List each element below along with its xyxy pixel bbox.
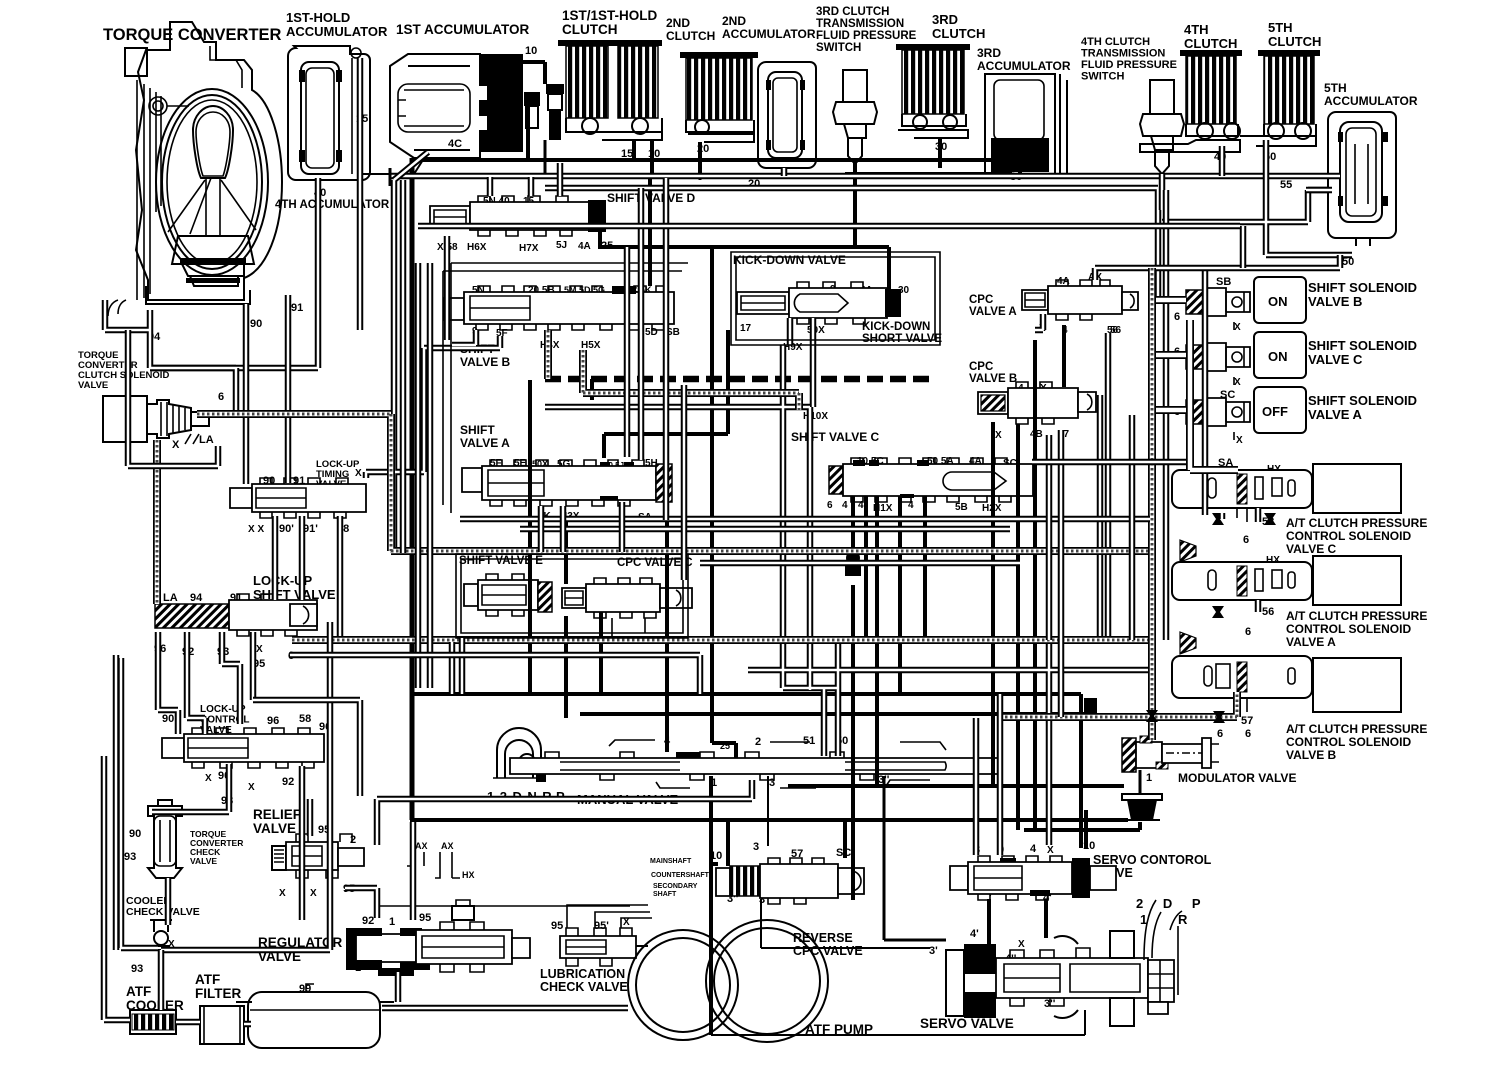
shift solenoid valve C assembly — [1186, 332, 1306, 378]
svg-text:KICK-DOWNSHORT VALVE: KICK-DOWNSHORT VALVE — [862, 321, 942, 345]
svg-text:95: 95 — [419, 912, 431, 924]
svg-text:2 D P: 2 D P — [1136, 896, 1209, 911]
cpc valve C — [562, 578, 692, 618]
A/T clutch pressure control solenoid valve C body — [1172, 464, 1401, 522]
wire 57 route vertical — [403, 180, 1132, 717]
wire double y188 to 50 drop — [545, 140, 1352, 300]
svg-text:5B: 5B — [955, 502, 968, 513]
svg-text:AX: AX — [441, 841, 454, 851]
shift valve A — [462, 460, 672, 506]
check ball fitting — [845, 562, 861, 576]
wire check ball drop — [523, 62, 545, 160]
wire clutch drops — [634, 140, 700, 286]
wire lock-up shift drops — [158, 632, 253, 734]
4th clutch — [1180, 50, 1242, 139]
wire lubrication shafts — [567, 905, 652, 928]
wire 40 drop / 2nd accum drop / 4th accum drop — [150, 58, 1222, 368]
wire hatched y640 — [292, 636, 1150, 644]
svg-text:X: X — [205, 773, 212, 784]
svg-text:4A: 4A — [578, 241, 591, 252]
wire servo control 10 — [1084, 810, 1088, 848]
modulator valve — [1122, 736, 1219, 772]
svg-text:17: 17 — [740, 323, 752, 334]
2nd accumulator — [758, 62, 816, 178]
shift valve D — [430, 196, 606, 236]
wire right columns — [545, 190, 1205, 845]
svg-text:91: 91 — [291, 302, 303, 314]
3rd clutch transmission fluid pressure switch — [833, 70, 877, 240]
atf strainer — [236, 984, 394, 1048]
1st accumulator — [362, 54, 523, 174]
svg-text:6: 6 — [1243, 534, 1249, 546]
wire X LA loop — [128, 330, 218, 466]
wire timing valve drops — [275, 516, 340, 640]
svg-text:MODULATOR VALVE: MODULATOR VALVE — [1178, 771, 1296, 785]
svg-text:3': 3' — [929, 945, 938, 957]
svg-text:90': 90' — [279, 523, 294, 535]
shift solenoid valve B assembly — [1186, 277, 1306, 323]
wire relief 95 up — [307, 799, 314, 836]
svg-text:1ST ACCUMULATOR: 1ST ACCUMULATOR — [396, 22, 529, 37]
svg-text:LUBRICATIONCHECK VALVE: LUBRICATIONCHECK VALVE — [540, 967, 628, 994]
svg-text:4TH ACCUMULATOR: 4TH ACCUMULATOR — [275, 199, 390, 211]
svg-text:57: 57 — [1241, 715, 1253, 727]
fitting bowties — [1146, 513, 1276, 723]
lubrication check valve — [560, 928, 636, 966]
5th accumulator — [1328, 112, 1396, 246]
wire pump to servo — [884, 776, 946, 940]
svg-text:AX: AX — [415, 841, 428, 851]
modulator funnel — [1122, 770, 1162, 820]
wire heavy mid horizontal y694 — [410, 694, 1081, 848]
coil box A — [1313, 556, 1401, 605]
wire heavy black top segment y176-188 left — [389, 168, 392, 186]
svg-text:95': 95' — [594, 920, 609, 932]
svg-text:COUNTERSHAFT: COUNTERSHAFT — [651, 872, 710, 879]
wire 9 / 5F bundles — [366, 152, 500, 553]
svg-text:6: 6 — [1245, 626, 1251, 638]
wire heavy y714 — [580, 712, 1092, 716]
servo control valve — [950, 856, 1116, 900]
check ball valve pair (below 10) — [524, 84, 564, 140]
svg-text:93: 93 — [131, 963, 143, 975]
svg-text:MAINSHAFT: MAINSHAFT — [650, 858, 692, 865]
wire cpc A drops — [1035, 314, 1049, 640]
svg-text:1: 1 — [389, 916, 395, 928]
wire manual 1 down — [711, 776, 718, 1035]
svg-text:H6X: H6X — [467, 242, 487, 253]
wire relief 2 line — [377, 780, 752, 845]
svg-text:X: X — [1236, 435, 1243, 446]
atf filter — [200, 1006, 244, 1044]
OFF box A — [1254, 387, 1306, 433]
svg-text:5J: 5J — [556, 240, 567, 251]
wire shift valve C drops with ball — [853, 496, 877, 820]
cooler check valve — [150, 920, 172, 950]
svg-text:H7X: H7X — [519, 243, 539, 254]
servo gate curves — [1144, 900, 1182, 995]
torque converter clutch solenoid valve — [103, 396, 209, 444]
port hooks AX AX HX — [415, 841, 475, 880]
wire enclosure box check valves left — [161, 622, 330, 950]
wire regulator row line — [380, 905, 630, 907]
kick-down valve — [737, 282, 901, 324]
svg-text:3: 3 — [753, 841, 759, 853]
solenoid X stubs — [1233, 322, 1235, 440]
wire valve A bottom drops — [541, 502, 622, 552]
wire hatched right vertical — [1148, 268, 1156, 740]
lock-up timing valve — [230, 478, 366, 518]
wire mid doubles y519 y529 — [460, 519, 1150, 529]
wire mid double y563 — [700, 560, 1020, 567]
wire cpc B down — [993, 325, 1064, 830]
wire cpc C bottom stubs — [612, 618, 645, 638]
svg-text:X: X — [1047, 845, 1054, 856]
svg-text:4: 4 — [842, 500, 848, 511]
ON box C — [1254, 332, 1306, 378]
wire enclosure box kick-down — [731, 252, 940, 345]
svg-text:6: 6 — [218, 391, 224, 403]
wire heavy to 90 5J port — [604, 330, 728, 458]
wire 1st accumulator drop — [544, 140, 547, 176]
junction blob — [1084, 698, 1097, 714]
svg-text:RELIEFVALVE: RELIEFVALVE — [253, 807, 301, 836]
svg-text:X: X — [248, 782, 255, 793]
svg-text:2: 2 — [755, 736, 761, 748]
funnel fittings mid right — [1180, 540, 1196, 654]
wire reverse cpc 3' — [761, 899, 930, 948]
svg-text:ON: ON — [1268, 349, 1288, 364]
svg-text:X: X — [172, 439, 180, 451]
wire shift valve D to kick-down — [598, 230, 889, 289]
wire hatched solenoid stubs — [1156, 300, 1238, 470]
A/T clutch pressure control solenoid valve B body — [1172, 656, 1401, 712]
coil box C — [1313, 464, 1401, 513]
svg-text:TORQUE CONVERTER: TORQUE CONVERTER — [103, 26, 282, 44]
svg-text:90: 90 — [129, 828, 141, 840]
wire 5G drop — [590, 379, 594, 400]
shift solenoid valve A assembly — [1186, 387, 1306, 433]
svg-text:ON: ON — [1268, 294, 1288, 309]
svg-text:58: 58 — [299, 713, 311, 725]
black end cap — [588, 200, 606, 232]
atf pump — [628, 920, 828, 1042]
wire main left heavy vertical — [410, 158, 415, 820]
svg-text:6: 6 — [1217, 728, 1223, 740]
svg-text:92: 92 — [362, 915, 374, 927]
wire enclosure box shift valves B/A — [443, 263, 688, 513]
svg-text:1: 1 — [1146, 772, 1152, 784]
svg-text:X: X — [995, 430, 1002, 441]
svg-text:4C: 4C — [448, 138, 462, 150]
4th clutch transmission fluid pressure switch — [1140, 80, 1184, 210]
wire valve C other drops — [866, 496, 925, 714]
shift valve E — [464, 574, 552, 616]
svg-text:94: 94 — [190, 592, 203, 604]
wire top right y268 — [1095, 255, 1340, 280]
svg-text:6: 6 — [1174, 311, 1180, 323]
3rd accumulator — [985, 74, 1067, 176]
wire SA route — [1032, 459, 1186, 466]
wire hatched left vertical — [153, 440, 161, 604]
wire hatched to A/T B row — [1000, 692, 1237, 717]
svg-text:91': 91' — [303, 523, 318, 535]
svg-text:4': 4' — [970, 928, 979, 940]
cpc valve A — [1022, 280, 1138, 320]
wire long double y176 — [390, 173, 1340, 180]
A/T clutch pressure control solenoid valve A body — [1172, 556, 1401, 605]
wire center heavy — [528, 380, 532, 692]
svg-text:X: X — [1234, 377, 1241, 388]
svg-text:KICK-DOWN VALVE: KICK-DOWN VALVE — [733, 253, 846, 267]
lock-up shift valve — [155, 594, 317, 636]
5th clutch — [1140, 50, 1320, 152]
wire heavy bottom horizontal to modulator funnel — [410, 818, 1128, 822]
svg-text:X: X — [310, 888, 317, 899]
svg-text:X X: X X — [248, 524, 264, 535]
svg-text:90: 90 — [250, 318, 262, 330]
relief valve — [272, 834, 364, 878]
ON box B — [1254, 277, 1306, 323]
wire relief 95 to regulator — [345, 888, 377, 918]
svg-text:R: R — [1178, 912, 1188, 927]
wire center bundle verticals — [627, 178, 684, 580]
wire hatched solenoid feed — [197, 414, 1152, 551]
svg-text:55: 55 — [1280, 179, 1292, 191]
torque converter — [108, 22, 282, 316]
wire 3rd switch drop — [853, 162, 857, 247]
wire funnel link — [1024, 822, 1140, 830]
shift valve C — [829, 458, 1033, 502]
black end cap servo control — [1072, 858, 1090, 898]
svg-text:REVERSECPC VALVE: REVERSECPC VALVE — [793, 931, 863, 958]
svg-text:X: X — [279, 888, 286, 899]
wire kick-down top double — [418, 226, 1243, 268]
svg-text:4: 4 — [1030, 843, 1037, 855]
atf cooler — [130, 1010, 176, 1034]
1st-hold accumulator — [288, 46, 370, 180]
2nd clutch — [680, 52, 758, 180]
svg-text:56: 56 — [1262, 606, 1274, 618]
wire 25 line heavy — [712, 247, 736, 758]
wire servo valve links — [728, 820, 1046, 944]
lock-up control valve — [162, 728, 324, 768]
3rd clutch — [896, 44, 970, 168]
1st/1st-hold clutch — [558, 40, 662, 162]
wire hatched H5X H10X — [548, 330, 799, 410]
regulator valve — [346, 900, 530, 976]
coil box B — [1313, 658, 1401, 712]
wire main feed horizontal top — [412, 158, 1016, 162]
wire servo control feeds — [976, 694, 1000, 855]
solid black piston block — [480, 54, 523, 152]
servo valve assembly — [946, 900, 1182, 1026]
servo bolt — [1148, 960, 1174, 1002]
wire A/T row stubs — [1222, 508, 1258, 612]
manual valve detent — [493, 728, 545, 778]
wire 3rd accumulator drop — [845, 170, 1020, 178]
svg-text:HX: HX — [462, 870, 475, 880]
wire enclosure box shift valve E / cpc C — [456, 554, 688, 638]
svg-text:X: X — [355, 468, 362, 479]
black end cap kick-down — [885, 289, 901, 317]
wire lock-up shift 6 route — [161, 655, 700, 1010]
svg-text:10: 10 — [525, 45, 537, 57]
svg-text:6: 6 — [1245, 728, 1251, 740]
svg-text:OFF: OFF — [1262, 404, 1288, 419]
svg-text:X: X — [256, 644, 263, 655]
svg-text:SERVO VALVE: SERVO VALVE — [920, 1016, 1014, 1031]
wire cpc C lines — [566, 522, 667, 752]
wire lockup control bottom 93 — [104, 655, 628, 1024]
svg-text:93: 93 — [124, 851, 136, 863]
svg-text:X: X — [1018, 939, 1025, 950]
wire tc 90 91 94 — [105, 295, 288, 484]
svg-text:95: 95 — [551, 920, 563, 932]
reverse cpc valve — [716, 858, 864, 904]
svg-text:2: 2 — [350, 834, 356, 846]
manual valve spool — [510, 740, 1000, 788]
wire heavy dashed band — [545, 376, 930, 383]
wire valve D top ports up — [447, 163, 560, 340]
svg-text:LA: LA — [163, 592, 178, 604]
svg-text:92: 92 — [282, 776, 294, 788]
svg-text:6: 6 — [827, 500, 833, 511]
svg-text:SB: SB — [1216, 276, 1231, 288]
svg-text:SHIFT VALVE C: SHIFT VALVE C — [791, 430, 880, 444]
wire 92 to regulator — [302, 638, 462, 920]
svg-text:56: 56 — [1110, 325, 1122, 336]
cpc valve B — [978, 382, 1096, 424]
svg-text:H5X: H5X — [581, 340, 601, 351]
svg-text:96: 96 — [267, 715, 279, 727]
svg-text:LA: LA — [199, 434, 214, 446]
shift valve B — [444, 286, 674, 330]
wire heavy y787 short — [788, 784, 1124, 788]
torque converter check valve — [148, 800, 182, 878]
wire 55 line — [1306, 187, 1332, 194]
wire lubrication to pump — [636, 945, 648, 947]
wire manual 3 down — [767, 776, 769, 846]
svg-text:51: 51 — [803, 735, 815, 747]
wire 3rd clutch drop — [938, 140, 942, 160]
svg-text:X: X — [1234, 322, 1241, 333]
